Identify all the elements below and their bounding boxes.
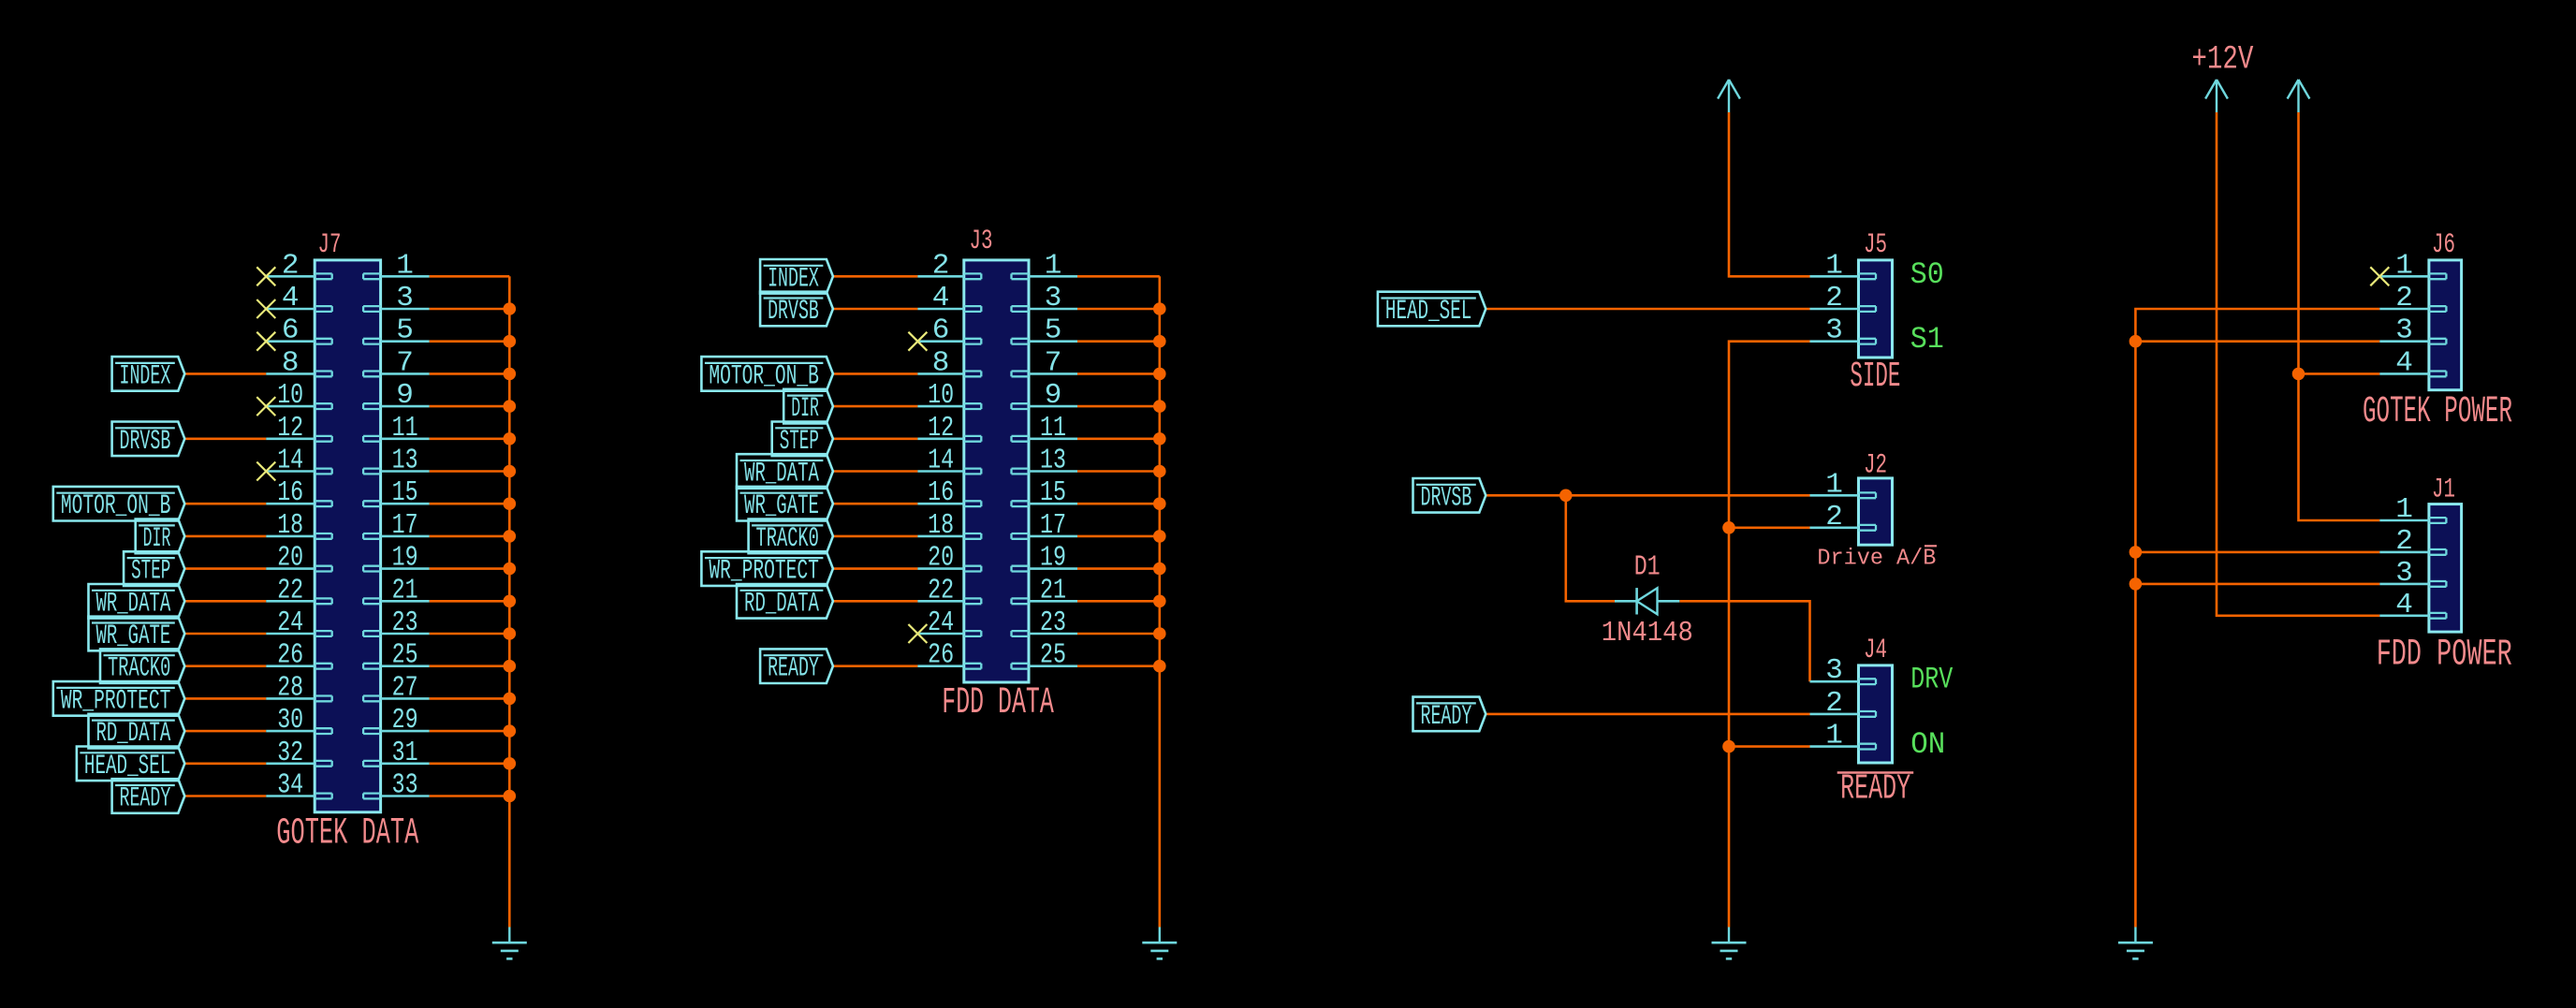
svg-text:S0: S0 bbox=[1910, 257, 1944, 292]
svg-text:DRVSB: DRVSB bbox=[1421, 482, 1472, 514]
svg-text:MOTOR_ON_B: MOTOR_ON_B bbox=[709, 360, 819, 392]
svg-text:9: 9 bbox=[396, 379, 414, 412]
svg-text:9: 9 bbox=[1045, 379, 1062, 412]
svg-text:24: 24 bbox=[928, 606, 954, 639]
svg-text:26: 26 bbox=[277, 639, 303, 672]
svg-text:11: 11 bbox=[1040, 412, 1066, 445]
svg-text:13: 13 bbox=[1040, 445, 1066, 477]
svg-text:18: 18 bbox=[277, 509, 303, 542]
svg-text:26: 26 bbox=[928, 639, 954, 672]
svg-text:WR_DATA: WR_DATA bbox=[744, 459, 819, 490]
svg-text:2: 2 bbox=[2395, 282, 2413, 314]
svg-text:17: 17 bbox=[1040, 509, 1066, 542]
svg-text:READY: READY bbox=[1421, 701, 1472, 733]
svg-text:J2: J2 bbox=[1864, 450, 1887, 482]
svg-text:GOTEK POWER: GOTEK POWER bbox=[2363, 391, 2512, 433]
svg-text:17: 17 bbox=[392, 509, 418, 542]
svg-text:J1: J1 bbox=[2432, 475, 2455, 506]
svg-text:RD_DATA: RD_DATA bbox=[744, 588, 819, 620]
svg-text:1: 1 bbox=[1045, 249, 1062, 282]
svg-text:3: 3 bbox=[1825, 314, 1843, 347]
svg-text:5: 5 bbox=[396, 314, 414, 347]
svg-text:25: 25 bbox=[1040, 639, 1066, 672]
svg-text:21: 21 bbox=[392, 574, 418, 606]
svg-text:DRV: DRV bbox=[1910, 663, 1954, 697]
svg-text:31: 31 bbox=[392, 737, 418, 769]
svg-text:WR_PROTECT: WR_PROTECT bbox=[61, 685, 171, 717]
svg-text:READY: READY bbox=[120, 783, 171, 815]
svg-text:4: 4 bbox=[2395, 589, 2413, 621]
svg-text:STEP: STEP bbox=[131, 556, 170, 588]
svg-text:+12V: +12V bbox=[2191, 40, 2253, 78]
svg-text:DRVSB: DRVSB bbox=[768, 296, 819, 328]
svg-text:15: 15 bbox=[1040, 476, 1066, 509]
svg-text:FDD DATA: FDD DATA bbox=[942, 682, 1054, 724]
svg-text:DIR: DIR bbox=[791, 393, 819, 425]
svg-text:1: 1 bbox=[1825, 249, 1843, 282]
svg-text:RD_DATA: RD_DATA bbox=[95, 718, 170, 750]
svg-text:J5: J5 bbox=[1864, 229, 1887, 261]
svg-text:GOTEK DATA: GOTEK DATA bbox=[276, 813, 418, 855]
svg-text:TRACK0: TRACK0 bbox=[756, 523, 819, 555]
svg-text:15: 15 bbox=[392, 476, 418, 509]
svg-text:28: 28 bbox=[277, 671, 303, 704]
svg-text:READY: READY bbox=[1840, 768, 1910, 809]
svg-text:1: 1 bbox=[2395, 249, 2413, 282]
svg-text:WR_GATE: WR_GATE bbox=[744, 490, 819, 522]
svg-text:6: 6 bbox=[932, 314, 950, 347]
svg-text:2: 2 bbox=[1825, 501, 1843, 533]
svg-text:3: 3 bbox=[1045, 282, 1062, 314]
svg-text:J4: J4 bbox=[1864, 635, 1887, 666]
svg-text:19: 19 bbox=[392, 542, 418, 575]
svg-text:Drive A/B: Drive A/B bbox=[1817, 547, 1936, 572]
svg-text:10: 10 bbox=[928, 379, 954, 412]
svg-text:14: 14 bbox=[928, 445, 954, 477]
svg-text:4: 4 bbox=[2395, 346, 2413, 379]
svg-text:2: 2 bbox=[1825, 687, 1843, 720]
svg-text:12: 12 bbox=[277, 412, 303, 445]
svg-text:24: 24 bbox=[277, 606, 303, 639]
svg-text:6: 6 bbox=[282, 314, 300, 347]
svg-text:INDEX: INDEX bbox=[120, 360, 171, 392]
svg-text:1: 1 bbox=[1825, 468, 1843, 501]
svg-text:7: 7 bbox=[1045, 346, 1062, 379]
svg-text:7: 7 bbox=[396, 346, 414, 379]
svg-text:ON: ON bbox=[1910, 727, 1945, 762]
svg-text:3: 3 bbox=[396, 282, 414, 314]
svg-text:11: 11 bbox=[392, 412, 418, 445]
svg-text:23: 23 bbox=[392, 606, 418, 639]
svg-text:WR_GATE: WR_GATE bbox=[95, 621, 170, 652]
svg-text:1: 1 bbox=[1825, 720, 1843, 752]
svg-text:21: 21 bbox=[1040, 574, 1066, 606]
svg-text:TRACK0: TRACK0 bbox=[108, 653, 170, 685]
svg-text:WR_PROTECT: WR_PROTECT bbox=[709, 556, 819, 588]
svg-text:18: 18 bbox=[928, 509, 954, 542]
svg-text:2: 2 bbox=[1825, 282, 1843, 314]
svg-text:3: 3 bbox=[1825, 654, 1843, 687]
svg-text:DIR: DIR bbox=[143, 523, 171, 555]
svg-text:INDEX: INDEX bbox=[768, 263, 819, 295]
svg-text:20: 20 bbox=[277, 542, 303, 575]
svg-text:D1: D1 bbox=[1634, 551, 1661, 584]
svg-text:22: 22 bbox=[928, 574, 954, 606]
svg-text:1N4148: 1N4148 bbox=[1602, 617, 1693, 650]
svg-text:5: 5 bbox=[1045, 314, 1062, 347]
svg-text:16: 16 bbox=[928, 476, 954, 509]
svg-text:8: 8 bbox=[282, 346, 300, 379]
svg-text:13: 13 bbox=[392, 445, 418, 477]
svg-text:16: 16 bbox=[277, 476, 303, 509]
svg-text:1: 1 bbox=[396, 249, 414, 282]
svg-text:WR_DATA: WR_DATA bbox=[95, 588, 170, 620]
svg-text:1: 1 bbox=[2395, 493, 2413, 526]
svg-text:MOTOR_ON_B: MOTOR_ON_B bbox=[61, 490, 171, 522]
svg-text:HEAD_SEL: HEAD_SEL bbox=[1385, 296, 1471, 328]
svg-text:32: 32 bbox=[277, 737, 303, 769]
svg-text:SIDE: SIDE bbox=[1850, 357, 1900, 397]
svg-text:10: 10 bbox=[277, 379, 303, 412]
svg-text:HEAD_SEL: HEAD_SEL bbox=[84, 751, 170, 782]
svg-text:20: 20 bbox=[928, 542, 954, 575]
svg-text:4: 4 bbox=[932, 282, 950, 314]
svg-text:4: 4 bbox=[282, 282, 300, 314]
svg-text:2: 2 bbox=[282, 249, 300, 282]
svg-text:27: 27 bbox=[392, 671, 418, 704]
svg-text:2: 2 bbox=[932, 249, 950, 282]
svg-text:DRVSB: DRVSB bbox=[120, 426, 171, 458]
svg-text:3: 3 bbox=[2395, 557, 2413, 590]
svg-text:30: 30 bbox=[277, 704, 303, 737]
svg-text:STEP: STEP bbox=[780, 426, 819, 458]
svg-text:19: 19 bbox=[1040, 542, 1066, 575]
svg-text:J7: J7 bbox=[318, 229, 342, 261]
svg-text:22: 22 bbox=[277, 574, 303, 606]
svg-text:J3: J3 bbox=[970, 226, 993, 257]
svg-text:25: 25 bbox=[392, 639, 418, 672]
svg-text:34: 34 bbox=[277, 769, 303, 802]
svg-text:3: 3 bbox=[2395, 314, 2413, 347]
svg-text:FDD POWER: FDD POWER bbox=[2377, 635, 2512, 677]
svg-text:2: 2 bbox=[2395, 525, 2413, 558]
svg-text:14: 14 bbox=[277, 445, 303, 477]
svg-text:READY: READY bbox=[768, 653, 819, 685]
svg-text:23: 23 bbox=[1040, 606, 1066, 639]
svg-text:8: 8 bbox=[932, 346, 950, 379]
svg-text:J6: J6 bbox=[2432, 229, 2455, 261]
svg-text:12: 12 bbox=[928, 412, 954, 445]
svg-text:29: 29 bbox=[392, 704, 418, 737]
svg-text:33: 33 bbox=[392, 769, 418, 802]
svg-text:S1: S1 bbox=[1910, 322, 1944, 357]
